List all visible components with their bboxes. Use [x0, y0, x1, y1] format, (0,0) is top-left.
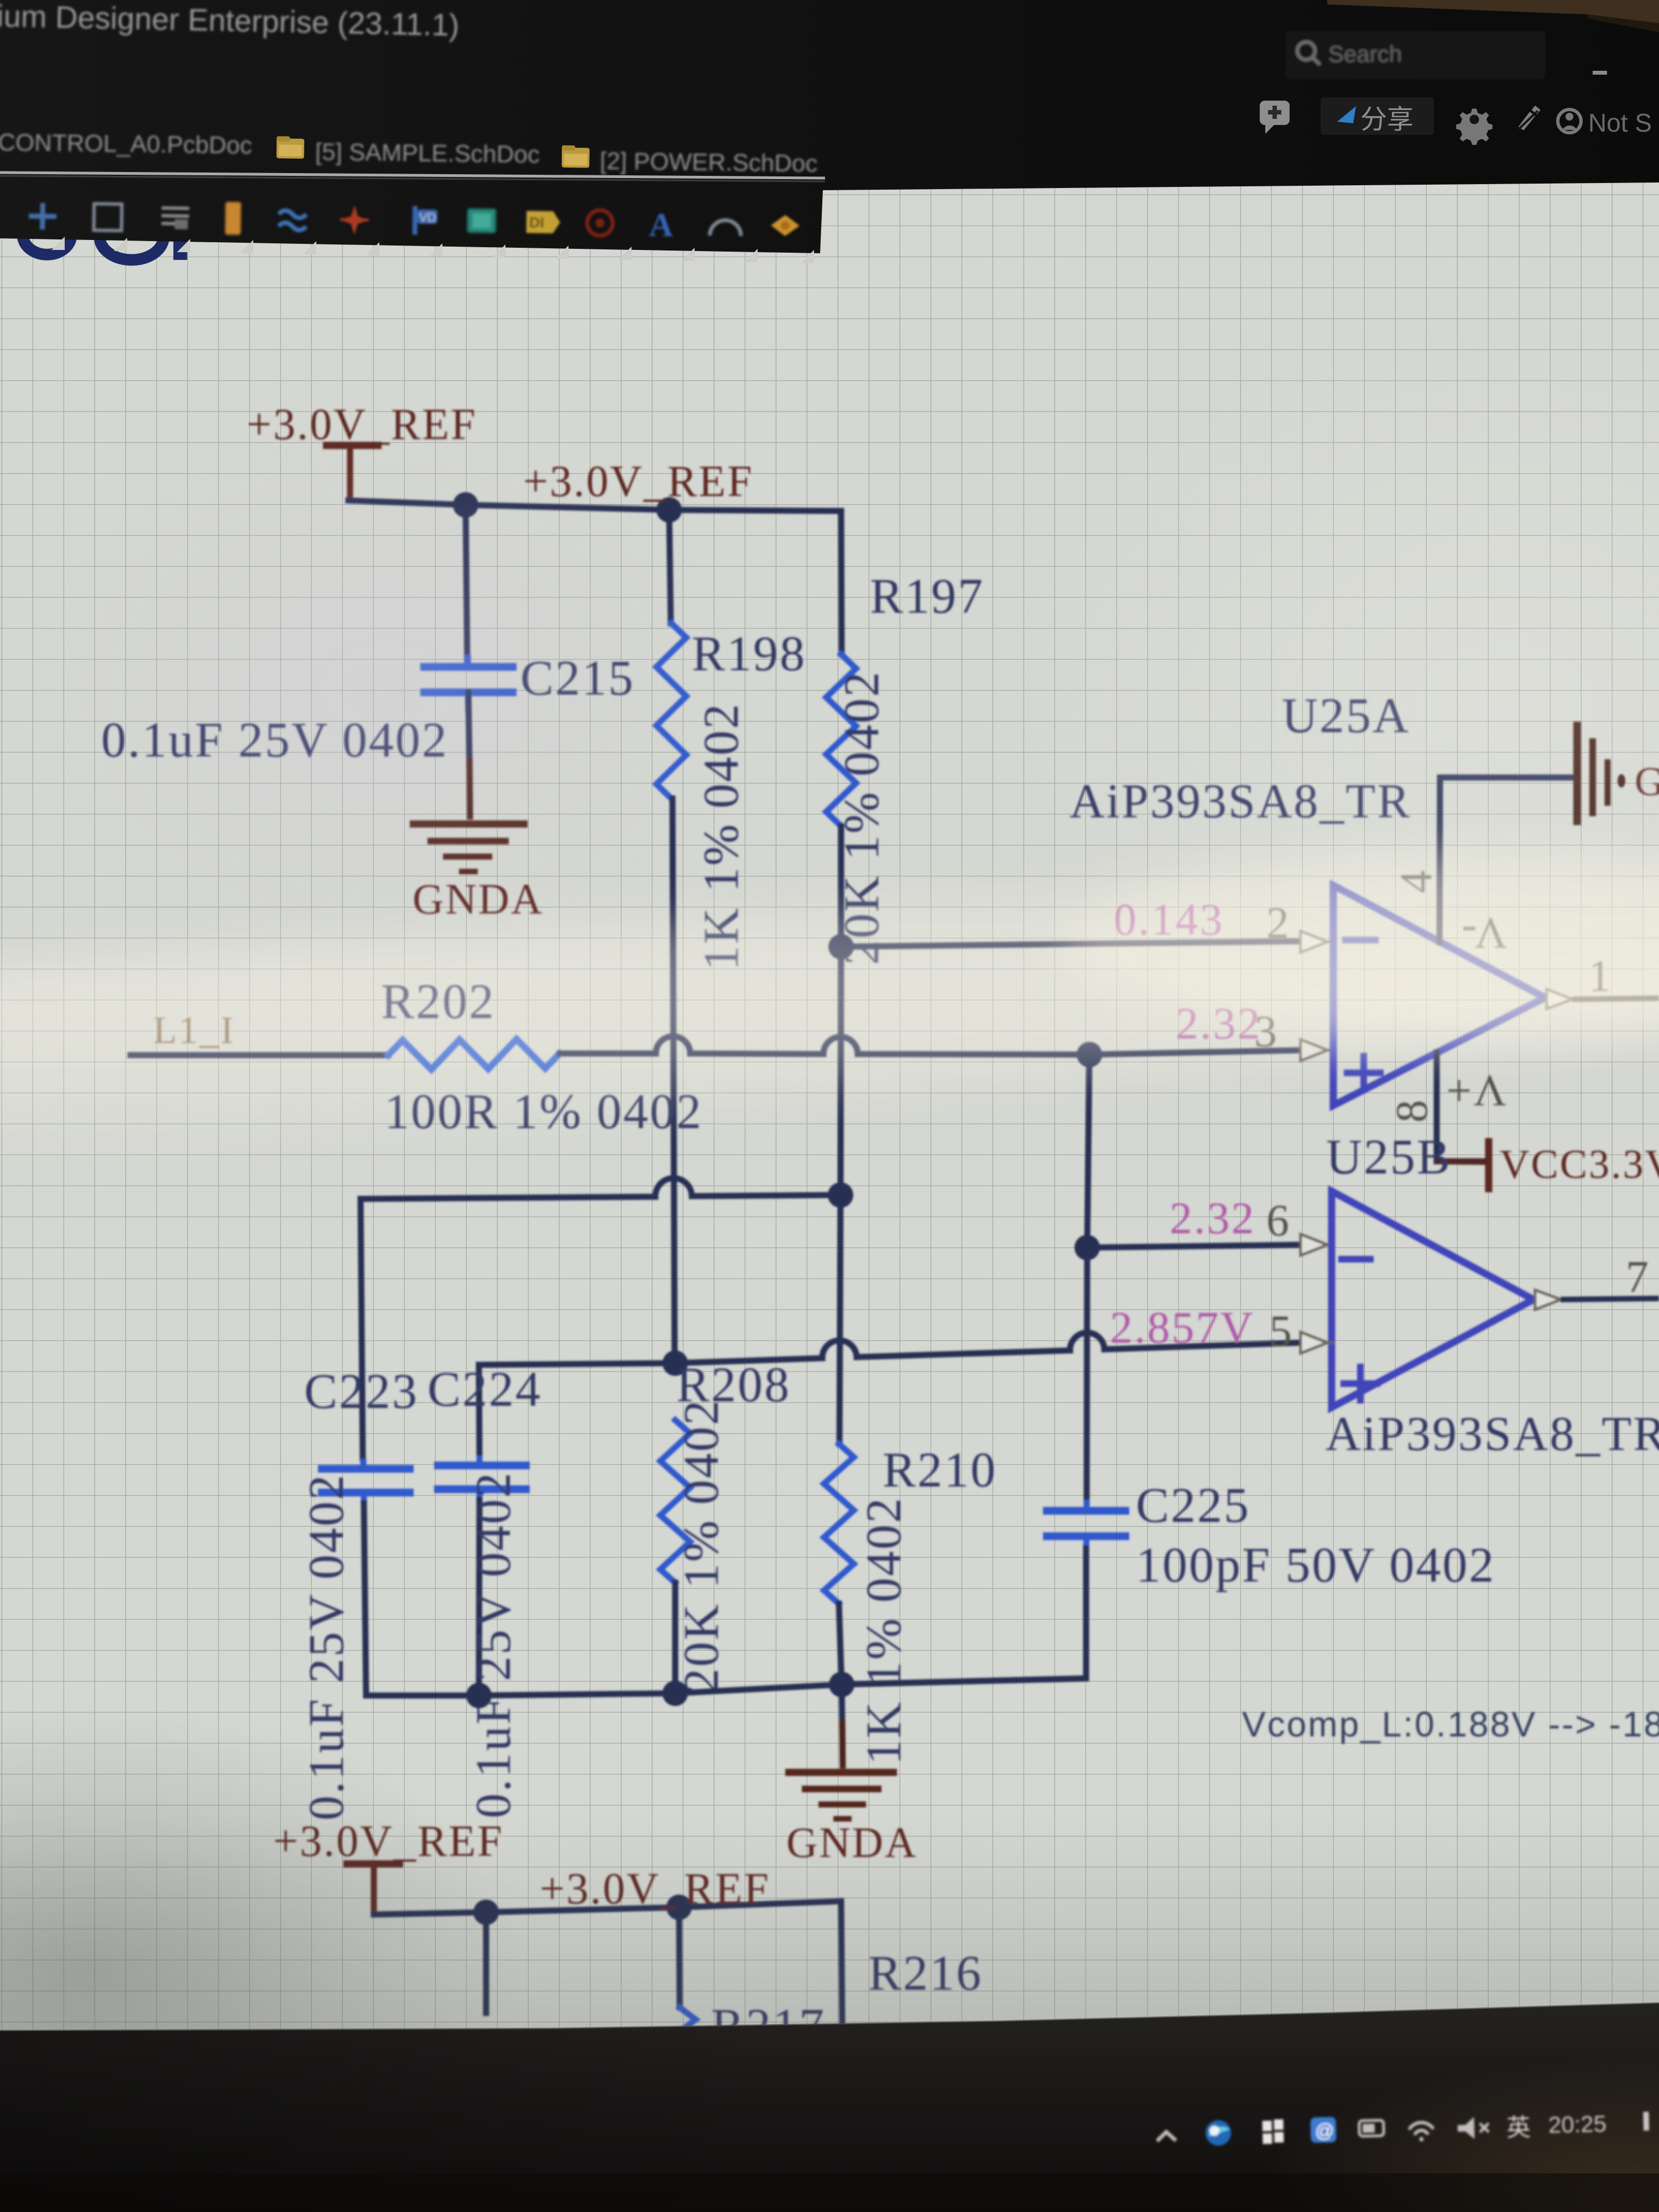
net voltage 2.32 (pin6) — [1170, 1193, 1256, 1243]
resistor R217 (partial, clipped) — [679, 1907, 826, 2054]
title text — [0, 0, 460, 43]
net label +3.0V_REF (bus E) — [540, 1865, 770, 1913]
net voltage 2.857V — [1110, 1302, 1255, 1353]
toolbar dropdown triangles — [51, 237, 814, 263]
svg-text:[5] SAMPLE.SchDoc: [5] SAMPLE.SchDoc — [315, 138, 540, 168]
gear icon — [1456, 109, 1493, 145]
svg-text:[2] POWER.SchDoc: [2] POWER.SchDoc — [600, 148, 818, 178]
junction R208 top — [662, 1350, 688, 1376]
minimize button — [1593, 71, 1607, 75]
taskbar — [0, 2003, 1659, 2212]
junction R198 top — [656, 497, 682, 523]
top UI dark area — [0, 0, 1659, 253]
net label L1_I — [153, 1009, 235, 1052]
resistor R198 — [656, 510, 806, 1363]
background wedge above screen (top-right) — [1327, 0, 1659, 32]
toolbar icons — [29, 198, 800, 245]
svg-text:@: @ — [1315, 2120, 1334, 2142]
user icon — [1558, 108, 1652, 137]
power +3.0V_REF bottom — [273, 1817, 504, 1913]
pin 3 — [1254, 1006, 1334, 1061]
ground GNDA (under C215) — [410, 824, 544, 923]
junction J2 (pin6 net) — [1074, 1235, 1100, 1260]
svg-text:VD: VD — [419, 211, 436, 225]
resistor R197 — [826, 511, 984, 965]
pin 5 — [1269, 1306, 1334, 1356]
pin 2 — [1266, 898, 1334, 952]
folder icon tab1 — [276, 136, 304, 159]
resistor R208 — [660, 1358, 791, 1693]
svg-text:DI: DI — [529, 214, 544, 231]
pin 8 number — [1386, 1098, 1437, 1123]
resistor R210 — [824, 1195, 997, 1765]
pin 6 — [1266, 1195, 1334, 1255]
search box — [1286, 31, 1546, 80]
pin 4 (V-) wire to ground — [1439, 778, 1575, 942]
share button — [1321, 97, 1434, 135]
wire bus D (C223 top to R210 column, hop over R198 column) — [361, 1178, 841, 1199]
junction bus E right — [666, 1895, 692, 1920]
ground GNDA (bottom) — [785, 1772, 917, 1866]
svg-text:20:25: 20:25 — [1548, 2110, 1606, 2137]
wire stub below junction 1 — [483, 1912, 489, 2013]
wire pin 8 to VCC3.3V — [1437, 1052, 1486, 1161]
capacitor C224 — [427, 1362, 542, 1818]
svg-text:CONTROL_A0.PcbDoc: CONTROL_A0.PcbDoc — [0, 129, 252, 159]
wire to GNDA (bottom) — [842, 1684, 843, 1768]
wire L1_I — [131, 1052, 388, 1058]
wire J2 to C225 — [1087, 1248, 1087, 1500]
svg-text:A: A — [649, 206, 673, 243]
net voltage 2.32 (pin3) — [1176, 998, 1262, 1048]
junction R197 bottom / pin2 net — [828, 934, 854, 959]
wire R202 to U25A pin 3 (hops over R198,R197 columns) — [560, 1036, 1302, 1055]
wire pin5 bus (C224 top, R208 top, hops R210 & C225 columns) — [479, 1333, 1301, 1365]
resistor R202 — [381, 974, 703, 1139]
junction R208 bottom — [662, 1681, 688, 1706]
op-amp U25A — [1070, 688, 1545, 1105]
pin 1 output — [1547, 951, 1659, 1009]
junction bus D / R210 column — [828, 1182, 853, 1208]
wire bus E — [374, 1901, 842, 2023]
annotation Vcomp_L — [1242, 1704, 1659, 1744]
junction C224 bottom — [466, 1683, 492, 1708]
wire R197 junction down to bus D — [841, 947, 841, 1195]
net voltage 0.143 — [1114, 894, 1224, 945]
toolbar separator line — [0, 173, 825, 181]
label V- — [1460, 908, 1507, 958]
label R216 — [868, 1946, 983, 2001]
folder icon tab2 — [562, 145, 589, 168]
comment icon — [1260, 101, 1290, 134]
pin 7 output — [1535, 1251, 1659, 1310]
wire bottom bus — [366, 1678, 1086, 1695]
label V+ — [1444, 1066, 1506, 1116]
wire +3.0V_REF top bus — [348, 500, 841, 511]
wire C215 to GNDA — [468, 692, 470, 820]
capacitor C223 — [299, 1199, 419, 1820]
wire to U25A pin 2 — [841, 941, 1302, 947]
document tabs — [0, 129, 818, 178]
svg-text:Not S: Not S — [1588, 108, 1652, 137]
power +3.0V_REF top — [247, 400, 477, 498]
op-amp U25B — [1326, 1130, 1659, 1461]
wire to U25B pin 6 — [1087, 1245, 1301, 1248]
junction J1 (pin3 net / divider tap) — [1077, 1042, 1102, 1067]
svg-text:分享: 分享 — [1360, 105, 1413, 134]
junction C215 top — [453, 492, 478, 518]
svg-text:英: 英 — [1506, 2114, 1531, 2142]
capacitor C215 — [101, 505, 635, 768]
junction R210 bottom / GNDA — [829, 1672, 854, 1697]
junction bus E left — [473, 1900, 499, 1925]
wire J1 to J2 — [1087, 1055, 1089, 1248]
power VCC3.3V — [1437, 1138, 1659, 1192]
wire C225 to bottom bus — [843, 1548, 1086, 1684]
net label +3.0V_REF (on top bus) — [523, 457, 754, 506]
capacitor C225 — [1043, 1478, 1495, 1593]
pen icon — [1519, 106, 1541, 131]
pin 4 number — [1391, 869, 1441, 893]
svg-text:Search: Search — [1328, 41, 1402, 67]
taskbar icons — [1157, 2110, 1650, 2150]
logo (partial letters under toolbar) — [23, 221, 180, 260]
ground G (pin 4) — [1577, 722, 1659, 825]
